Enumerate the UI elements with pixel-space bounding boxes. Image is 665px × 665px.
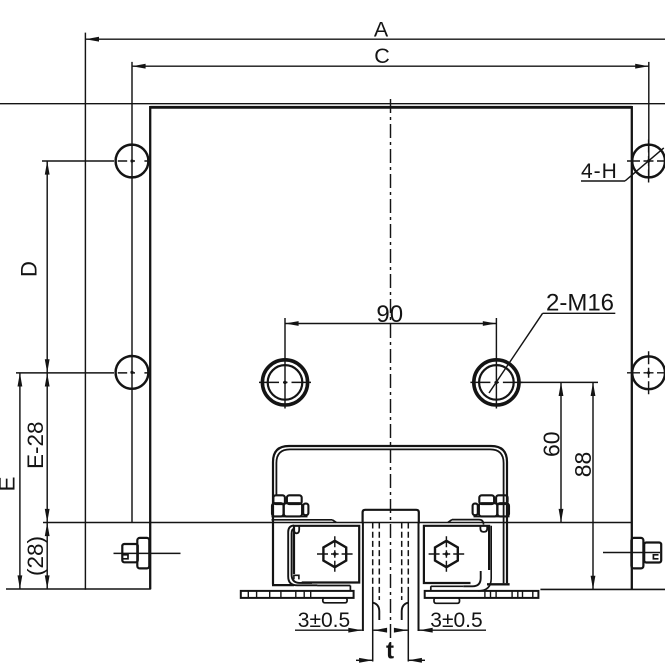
svg-text:3±0.5: 3±0.5 [298, 609, 350, 632]
60 top arrow [559, 382, 564, 396]
svg-text:t: t [386, 638, 394, 665]
hole top-right 4-H [632, 145, 665, 178]
(28) top arrow [45, 523, 50, 537]
3±0.5 arrows left pair [348, 628, 362, 633]
D bottom arrow [45, 359, 50, 373]
extension line through mid-left hole [16, 372, 114, 374]
dimension 60 line [560, 382, 562, 522]
bolt stack right [473, 495, 509, 516]
hex bolt right [435, 541, 458, 567]
hex bolt left [323, 541, 346, 567]
svg-text:C: C [374, 44, 390, 68]
C left arrow [132, 64, 146, 69]
slot hook right [402, 603, 408, 620]
svg-text:2-M16: 2-M16 [546, 290, 614, 317]
svg-text:A: A [374, 17, 389, 41]
dimension C line [132, 65, 649, 67]
bolt stack left [272, 495, 308, 516]
shim pad left lower [323, 598, 347, 603]
60 bottom arrow [559, 509, 564, 523]
bottom-left base line [6, 588, 151, 590]
C right arrow [635, 64, 649, 69]
t arrows [359, 658, 373, 663]
friction pad right [431, 586, 464, 591]
dimension 90 line [285, 323, 496, 325]
shim pad right lower [434, 598, 460, 603]
svg-text:60: 60 [539, 431, 565, 457]
stem cap [363, 510, 419, 524]
hole top-left [116, 145, 149, 178]
svg-text:3±0.5: 3±0.5 [430, 609, 482, 632]
svg-text:90: 90 [376, 301, 403, 328]
plate body outline [150, 106, 632, 109]
bottom-right base line [540, 588, 665, 590]
dimension A left extension [84, 33, 86, 590]
stem slot hidden lines [378, 523, 380, 601]
E top arrow [18, 373, 23, 387]
dimension E line [19, 373, 21, 589]
bolt right side [631, 538, 643, 569]
88 top arrow [591, 382, 596, 396]
block right groove [480, 526, 487, 532]
stem inner hidden lines [372, 523, 374, 589]
A left arrow [85, 37, 99, 42]
clamp block left [294, 526, 359, 583]
E-28 bottom arrow [45, 509, 50, 523]
hole mid-right [632, 356, 665, 389]
center line [390, 99, 392, 645]
plate bottom edge / extension [43, 522, 632, 524]
friction pad left [317, 586, 350, 591]
strap right [478, 526, 491, 591]
shim strip left [241, 591, 354, 598]
plate top-edge extension line [0, 103, 665, 105]
dimension column D / E-28 / (28) [46, 161, 48, 589]
M16 hole right [474, 360, 519, 405]
M16 hole left [262, 360, 307, 405]
clamp block right [424, 526, 489, 583]
slot hook left [373, 603, 379, 620]
dimension C left extension [131, 62, 133, 523]
housing outer [273, 446, 507, 585]
svg-text:D: D [17, 261, 42, 277]
svg-text:(28): (28) [23, 536, 48, 576]
90 left arrow [285, 321, 299, 326]
dimension 88 line [592, 382, 594, 589]
3±0.5 arrows right pair [419, 628, 433, 633]
3±0.5 leader left [295, 629, 362, 631]
88 bottom arrow [591, 576, 596, 590]
E bottom arrow [18, 575, 23, 589]
3±0.5 leader right [419, 629, 486, 631]
90 right arrow [483, 321, 497, 326]
housing inner wall [276, 449, 503, 583]
E-28 top arrow [45, 373, 50, 387]
svg-text:E: E [0, 476, 20, 491]
leader 2-M16 [489, 313, 543, 393]
block left groove [294, 526, 299, 534]
leader 4-H [581, 180, 625, 182]
hole center dots [130, 159, 650, 384]
block left bottom tab [294, 575, 299, 579]
extension through M16 holes to right [520, 381, 598, 383]
svg-text:E-28: E-28 [23, 421, 48, 469]
D top arrow [45, 161, 50, 175]
dimension C right extension [648, 62, 650, 179]
dimension A line [85, 38, 665, 40]
svg-text:88: 88 [570, 452, 596, 478]
dimension 90 extensions [284, 318, 286, 409]
extension line through top-left hole [42, 160, 114, 162]
(28) bottom arrow [45, 575, 50, 589]
hole mid-left [116, 356, 149, 389]
stem outer lines [362, 523, 364, 632]
bolt left side [122, 544, 138, 562]
shim strip right [425, 591, 539, 598]
strap left [288, 525, 317, 585]
svg-text:4-H: 4-H [581, 160, 618, 183]
t dimension line [356, 659, 372, 661]
